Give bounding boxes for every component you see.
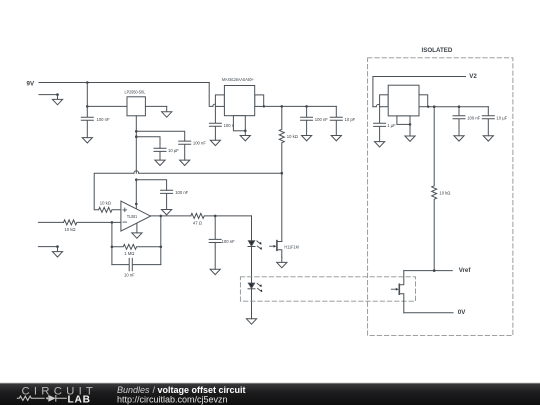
wire R5 node down to photoFET Q1 [281, 173, 283, 241]
wire op-amp V+ supply [135, 180, 137, 209]
wire into U5 input with hop [373, 106, 376, 108]
ground GND8 (below C11) [302, 136, 312, 141]
wire hop over C2 lead [213, 104, 218, 106]
regulator U1 LP2950-50L [125, 89, 146, 115]
node Vref label [459, 267, 472, 274]
wire op-amp output [151, 215, 191, 217]
node junction LP out to C3 [135, 130, 138, 133]
capacitor C10 10 nF (feedback) [112, 258, 161, 277]
wire V2 net [373, 77, 466, 107]
ISOLATED region box (dashed) [368, 58, 513, 336]
node junction output to C11 [305, 105, 308, 108]
wire branch to C5 [136, 180, 166, 191]
capacitor C4 10 uF (LP2950 output) [154, 148, 179, 160]
svg-text:Vref: Vref [459, 267, 472, 274]
capacitor C6 100 nF (LED node) [209, 216, 235, 269]
ground GND6 (below C2) [210, 140, 220, 145]
node junction U2 out pin [263, 105, 265, 107]
wire LP2950 ground pin lead [145, 105, 166, 107]
wire LED string feed [251, 216, 253, 241]
ground GND15 (Q1 source) [277, 257, 287, 268]
node junction output to R5 [281, 105, 284, 108]
svg-text:LAB: LAB [68, 394, 91, 405]
node junction out to C8 [458, 105, 461, 108]
ground GND3 (LP2950 gnd pin) [162, 106, 172, 117]
node junction U2 bottom pin [244, 130, 247, 133]
svg-text:10 pF: 10 pF [345, 117, 356, 122]
svg-text:9V: 9V [27, 80, 35, 87]
wire Vref net [404, 270, 453, 272]
LED D2 (optocoupler 2 emitter) [248, 283, 262, 292]
ground GND5 (below C4) [155, 160, 165, 165]
ground GND19 (below C9) [483, 136, 493, 141]
ground GND12 (input return) [52, 247, 62, 257]
ground GND18 (below C8) [454, 136, 464, 141]
node junction inverting input [111, 221, 114, 224]
svg-text:100 nF: 100 nF [467, 115, 480, 120]
svg-text:10 kΩ: 10 kΩ [100, 201, 111, 206]
reference U2 MAX6126AASA50+ [215, 77, 263, 131]
node junction feedback left [111, 246, 114, 249]
svg-text:100 nF: 100 nF [193, 141, 206, 146]
capacitor C1 100 nF (input bypass) [81, 106, 110, 137]
node junction U5 out pin [427, 106, 429, 108]
node junction Vref at R6 [433, 269, 436, 272]
svg-text:MAX6126AASA50+: MAX6126AASA50+ [222, 77, 254, 82]
transistor Q1 photoFET (H11F1M) [270, 241, 300, 258]
node junction U5 bottom pin [409, 123, 412, 126]
ground GND2 (below C1) [82, 138, 92, 143]
node junction at 9V rail [86, 81, 89, 84]
ground GND9 (below C12) [331, 136, 341, 141]
svg-text:10 µF: 10 µF [168, 148, 179, 153]
wire bias line to noninverting input [94, 173, 282, 210]
node junction bias line at R5 [281, 172, 284, 175]
wire 0V net [404, 312, 453, 314]
node 9V label [27, 80, 35, 87]
wire 9V junction down to LP2950 input row [86, 83, 88, 107]
wire inverting node down [111, 222, 113, 264]
svg-text:100 nF: 100 nF [315, 117, 328, 122]
resistor R5 10 kOhm (reference divider) [279, 106, 298, 173]
svg-text:Bundles: Bundles [117, 385, 150, 395]
wire 9V rail corner down to reference input [209, 83, 213, 107]
svg-text:V2: V2 [469, 73, 477, 80]
ground GND13 (below C6) [210, 269, 220, 274]
ground GND7 (U2 gnd pin) [240, 131, 250, 141]
ground GND17 (U5 gnd pin) [405, 124, 415, 141]
capacitor C9 10 uF (isolated output) [482, 107, 507, 136]
node 0V label [458, 309, 466, 316]
svg-text:47 Ω: 47 Ω [193, 220, 202, 225]
svg-text:0V: 0V [458, 309, 466, 316]
capacitor C7 1 uF (V2 input) [374, 107, 397, 142]
node V2 label [469, 73, 477, 80]
node junction at source ground [56, 93, 59, 96]
wire between LEDs [251, 247, 253, 284]
capacitor C3 100 nF (LP2950 output) [179, 141, 207, 160]
ground GND10 (below C5) [162, 210, 172, 215]
capacitor C11 100 nF (reference output) [301, 106, 329, 135]
node junction input return [56, 245, 59, 248]
node junction op-amp output [160, 215, 163, 218]
ground GND4 (below C3) [180, 160, 190, 165]
node junction input row [86, 105, 89, 108]
svg-text:10 kΩ: 10 kΩ [65, 227, 76, 232]
wire junction to LP2950 input pin [87, 105, 127, 107]
ground GND1 (9V source) [52, 95, 62, 105]
wire branch to C3 [136, 131, 184, 141]
svg-text:voltage offset circuit: voltage offset circuit [158, 385, 246, 395]
node ISOLATED label [422, 47, 453, 54]
resistor R6 10 kOhm (isolated divider) [432, 107, 451, 271]
ground GND16 (below C7) [375, 142, 385, 147]
node junction supply to C5 [135, 178, 138, 181]
node junction LP out to C4 [135, 135, 138, 138]
node junction output to C6 [214, 215, 217, 218]
capacitor C8 100 nF (isolated output) [453, 107, 481, 136]
svg-text:ISOLATED: ISOLATED [422, 47, 453, 54]
svg-text:10 kΩ: 10 kΩ [439, 191, 450, 196]
wire feedback right vertical [160, 216, 162, 265]
svg-text:10 nF: 10 nF [124, 272, 135, 277]
svg-text:100 nF: 100 nF [222, 239, 235, 244]
svg-text:http://circuitlab.com/cj5evzn: http://circuitlab.com/cj5evzn [117, 395, 228, 405]
wire LP2950 output vertical [135, 116, 137, 173]
wire op-amp V- to ground [136, 224, 138, 233]
LED D1 (optocoupler 1 emitter) [248, 241, 262, 250]
resistor R2 10 kOhm (bias to +input) [99, 201, 121, 213]
op-amp U3 TL081 [121, 201, 151, 231]
node junction op-amp V+ pin [135, 203, 138, 206]
resistor R1 10 kOhm (input) [64, 220, 121, 232]
capacitor C2 100 nF (reference input) [209, 106, 237, 140]
svg-text:H11F1M: H11F1M [284, 244, 299, 249]
svg-text:100 nF: 100 nF [97, 117, 110, 122]
svg-text:1 µF: 1 µF [387, 123, 396, 128]
capacitor C12 10 pF (reference output) [330, 106, 355, 135]
logo schematic flourish [17, 395, 67, 402]
svg-text:1 MΩ: 1 MΩ [124, 251, 134, 256]
wire hop over C7 lead [376, 104, 381, 106]
reference U5 (isolated side) [380, 85, 428, 124]
wire hop over LP2950 output line [134, 171, 139, 173]
transistor Q2 photoFET (isolated side) [391, 271, 404, 313]
wire U5 output row [428, 106, 489, 108]
wire U2 output row [264, 105, 337, 107]
node junction feedback right [160, 246, 163, 249]
wire LED string to ground [251, 289, 253, 319]
svg-text:10 kΩ: 10 kΩ [287, 134, 298, 139]
wire input signal stub [38, 221, 63, 223]
wire 9V rail [39, 82, 209, 84]
resistor R4 1 MOhm (feedback) [112, 244, 161, 256]
ground GND11 (op-amp V-) [132, 233, 142, 238]
wire 9V source ground lead [39, 94, 58, 96]
svg-text:100 nF: 100 nF [175, 190, 188, 195]
svg-text:LP2950-50L: LP2950-50L [125, 89, 146, 94]
svg-text:10 µF: 10 µF [496, 115, 507, 120]
wire input return stub [38, 246, 57, 248]
wire branch to C4 [136, 137, 160, 149]
ground GND14 (LED string) [246, 319, 256, 324]
svg-text:TL081: TL081 [127, 214, 138, 219]
node junction out to R6 [433, 105, 436, 108]
resistor R3 47 Ohm (output) [191, 213, 252, 225]
capacitor C5 100 nF (op-amp supply) [161, 190, 189, 210]
optocoupler U4 outline (dashed) [240, 277, 415, 301]
